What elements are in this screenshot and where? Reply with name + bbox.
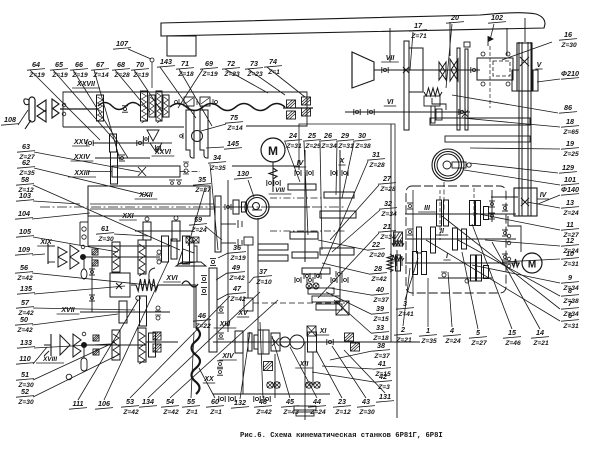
label 32 bbox=[379, 199, 397, 218]
shaft XVIII roman bbox=[36, 356, 64, 363]
shaft X roman bbox=[338, 158, 345, 165]
shaft XXIII roman bbox=[68, 170, 96, 177]
label 74 bbox=[264, 57, 282, 76]
label 48 bbox=[254, 397, 272, 416]
svg-text:23: 23 bbox=[337, 397, 346, 406]
label 36 bbox=[228, 243, 246, 262]
svg-text:70: 70 bbox=[136, 60, 144, 69]
bearing IV top bbox=[294, 170, 296, 176]
leader 75 bbox=[201, 124, 226, 131]
XVIII bevel pair bbox=[60, 335, 70, 355]
leader 70 bbox=[134, 70, 162, 112]
svg-text:20: 20 bbox=[450, 13, 459, 22]
label 29 bbox=[336, 131, 354, 150]
label 11 bbox=[561, 220, 579, 239]
fork bearing left bbox=[182, 133, 184, 139]
XIX bracket bbox=[47, 244, 49, 264]
svg-text:33: 33 bbox=[376, 323, 384, 332]
svg-text:56: 56 bbox=[20, 263, 29, 272]
gear on XXV bbox=[110, 134, 117, 152]
counter bearing bbox=[442, 273, 446, 277]
tumbler base bbox=[176, 262, 206, 266]
label 37 bbox=[254, 267, 272, 286]
svg-text:Z=42: Z=42 bbox=[162, 409, 179, 416]
label 66 bbox=[70, 60, 88, 79]
gear cluster right of XIX bbox=[162, 236, 169, 262]
leader 59 bbox=[205, 226, 222, 240]
svg-text:VI: VI bbox=[387, 99, 395, 106]
label 15 bbox=[503, 328, 521, 347]
leader 135 bbox=[34, 286, 125, 294]
svg-text:66: 66 bbox=[75, 60, 84, 69]
leader 65 bbox=[53, 70, 117, 143]
svg-text:52: 52 bbox=[21, 387, 29, 396]
lead screw axis bbox=[40, 206, 345, 208]
shaft XVII line bbox=[80, 311, 170, 313]
bearing VII a bbox=[381, 67, 383, 73]
pulley 210 flanges bbox=[512, 70, 517, 91]
svg-text:28: 28 bbox=[373, 264, 382, 273]
svg-text:30: 30 bbox=[358, 131, 366, 140]
svg-text:VII: VII bbox=[386, 55, 396, 62]
svg-text:18: 18 bbox=[566, 117, 574, 126]
small circle 111 target bbox=[136, 296, 140, 300]
leader 56 bbox=[32, 273, 148, 285]
cone pulley bbox=[352, 52, 374, 88]
leader 73 bbox=[248, 69, 285, 95]
leader 58 bbox=[33, 185, 180, 250]
clutch dial bbox=[245, 195, 269, 219]
label 41 bbox=[373, 359, 391, 378]
label 68 bbox=[112, 60, 130, 79]
leader 26 bbox=[320, 142, 322, 250]
svg-text:XV: XV bbox=[237, 310, 249, 317]
bevel under cluster bbox=[147, 130, 159, 141]
label 9 bbox=[561, 273, 579, 292]
svg-text:10: 10 bbox=[566, 249, 574, 258]
block 102 bbox=[464, 42, 470, 47]
label F140 bbox=[561, 185, 579, 195]
svg-text:Z=31: Z=31 bbox=[562, 261, 579, 268]
svg-text:145: 145 bbox=[227, 139, 240, 148]
stack bearing b bbox=[157, 260, 161, 264]
label 71 bbox=[176, 59, 194, 78]
shaft XXVII bbox=[60, 108, 98, 110]
spring XVI bbox=[131, 284, 136, 286]
gear 41b bbox=[316, 304, 342, 310]
svg-text:35: 35 bbox=[198, 175, 207, 184]
fork 75 block b bbox=[200, 97, 210, 106]
leader 110 bbox=[33, 347, 47, 364]
vertical link XIX bbox=[91, 257, 93, 312]
flexible shaft top link bbox=[182, 281, 198, 287]
fork 75 block a bbox=[184, 97, 194, 106]
svg-text:XIII: XIII bbox=[219, 321, 232, 328]
label 2 bbox=[394, 325, 412, 344]
shaft VIII line bbox=[228, 206, 247, 208]
svg-text:45: 45 bbox=[285, 397, 295, 406]
svg-text:11: 11 bbox=[566, 220, 573, 229]
leader 23 bbox=[316, 350, 342, 398]
leader 45 bbox=[272, 336, 290, 398]
leader 72 bbox=[225, 69, 268, 93]
leader 133 bbox=[34, 344, 110, 348]
wavy segment shaft XXVII b bbox=[170, 104, 285, 111]
svg-text:Z=20: Z=20 bbox=[368, 252, 385, 259]
label 60 bbox=[206, 397, 224, 416]
svg-text:XVI: XVI bbox=[165, 275, 178, 282]
leader 8 bbox=[458, 240, 560, 296]
leader 104 bbox=[32, 213, 90, 219]
leader 132 bbox=[240, 332, 250, 399]
leader 33 bbox=[334, 300, 371, 333]
svg-text:XIV: XIV bbox=[221, 353, 235, 360]
bearing II l bbox=[407, 228, 413, 230]
svg-text:Z=42: Z=42 bbox=[370, 276, 387, 283]
apron outline bbox=[87, 216, 89, 246]
svg-text:1: 1 bbox=[426, 326, 430, 335]
svg-text:111: 111 bbox=[73, 399, 84, 408]
leader 54 bbox=[170, 300, 278, 398]
svg-text:42: 42 bbox=[378, 372, 387, 381]
XVIII capsule bbox=[81, 358, 87, 371]
leader 68 bbox=[115, 70, 150, 112]
label 62 bbox=[17, 158, 35, 177]
leader 42 bbox=[312, 372, 374, 382]
label 135 bbox=[17, 284, 35, 294]
bearing XXIV bbox=[119, 154, 125, 156]
coupling left I bbox=[396, 255, 401, 271]
svg-text:37: 37 bbox=[259, 267, 268, 276]
label 50 bbox=[15, 315, 33, 334]
shaft IV roman right bbox=[537, 192, 549, 199]
svg-text:Z=21: Z=21 bbox=[532, 340, 549, 347]
bearing XXV right bbox=[136, 140, 138, 146]
shaft XXIV bbox=[95, 157, 150, 159]
svg-text:22: 22 bbox=[371, 240, 380, 249]
svg-text:Z=1: Z=1 bbox=[209, 409, 222, 416]
leader 6 bbox=[426, 240, 560, 321]
label 75 bbox=[225, 113, 243, 132]
plate 34 tall bbox=[215, 196, 221, 252]
svg-text:Рис.6. Схема кинематическая с: Рис.6. Схема кинематическая станков 6Р81… bbox=[240, 432, 443, 440]
bottom shaft line bbox=[213, 393, 330, 395]
bearing circled a bbox=[306, 382, 312, 388]
svg-text:Z=27: Z=27 bbox=[470, 340, 487, 347]
bearing on shaft XXVII a bbox=[122, 105, 128, 107]
gear on XVIII bbox=[149, 333, 156, 357]
svg-text:12: 12 bbox=[566, 236, 574, 245]
spring rod upper a bbox=[112, 242, 120, 272]
leader 21 bbox=[318, 233, 379, 298]
bearing X bottom bbox=[330, 277, 332, 283]
svg-text:44: 44 bbox=[312, 397, 321, 406]
shaft XVI line bbox=[158, 284, 196, 286]
stub lower bbox=[221, 242, 236, 244]
svg-text:2: 2 bbox=[400, 325, 405, 334]
leader 18 bbox=[462, 118, 560, 127]
shaft VI line bbox=[345, 111, 470, 113]
label 18 bbox=[561, 117, 579, 136]
label 10 bbox=[561, 249, 579, 268]
shaft VIII roman bbox=[269, 187, 292, 194]
svg-text:Z=24: Z=24 bbox=[309, 409, 326, 416]
leader 41 bbox=[322, 366, 373, 369]
svg-text:Z=3: Z=3 bbox=[377, 384, 390, 391]
label 3 bbox=[396, 299, 414, 318]
M1 spring bbox=[269, 168, 277, 179]
gear 39 bbox=[312, 296, 340, 302]
x mark pulley top bbox=[520, 57, 529, 66]
label 61 bbox=[96, 224, 114, 243]
dashed shaft line bbox=[253, 302, 345, 304]
svg-text:109: 109 bbox=[18, 245, 30, 254]
rod 37 bbox=[247, 245, 249, 298]
svg-text:73: 73 bbox=[250, 59, 258, 68]
label 14 bbox=[531, 328, 549, 347]
svg-text:72: 72 bbox=[227, 59, 235, 68]
leader 50 bbox=[32, 314, 118, 325]
svg-text:Z=24: Z=24 bbox=[562, 210, 579, 217]
bearing cross b bbox=[313, 283, 319, 289]
bearing cluster b bbox=[314, 273, 316, 279]
label 51 bbox=[16, 370, 34, 389]
label 35 bbox=[193, 175, 211, 194]
gear XI right bbox=[308, 332, 317, 352]
svg-text:61: 61 bbox=[101, 224, 109, 233]
bearing circled b bbox=[314, 382, 320, 388]
tumbler fork bbox=[178, 246, 197, 264]
label 34 bbox=[208, 153, 226, 172]
fork 75 left bbox=[186, 110, 194, 158]
spring rod lower a bbox=[112, 330, 120, 360]
leader 31 bbox=[318, 161, 368, 278]
svg-text:50: 50 bbox=[20, 315, 28, 324]
label 143 bbox=[157, 57, 175, 67]
svg-text:Z=37: Z=37 bbox=[194, 187, 211, 194]
leader 111 bbox=[78, 300, 138, 400]
bearing VI a bbox=[353, 109, 355, 115]
svg-text:Z=21: Z=21 bbox=[395, 337, 412, 344]
column line bbox=[396, 250, 398, 418]
label 104 bbox=[15, 209, 33, 219]
leader 67 bbox=[94, 70, 120, 160]
gear 75 circle bbox=[192, 131, 203, 142]
label 47 bbox=[228, 284, 246, 303]
leader 131 bbox=[344, 350, 385, 393]
label 70 bbox=[131, 60, 149, 79]
svg-text:143: 143 bbox=[160, 57, 172, 66]
svg-text:Z=28: Z=28 bbox=[379, 186, 396, 193]
dash VIII bbox=[270, 197, 345, 199]
svg-text:34: 34 bbox=[213, 153, 221, 162]
leader 61 bbox=[114, 234, 148, 236]
leader 51 bbox=[33, 342, 115, 380]
label 21 bbox=[378, 222, 396, 241]
svg-text:31: 31 bbox=[372, 150, 380, 159]
gear II b bbox=[431, 227, 436, 253]
leader circle 110 bbox=[66, 374, 72, 380]
shaft XIX roman bbox=[37, 239, 55, 246]
svg-text:135: 135 bbox=[20, 284, 33, 293]
gear 19 bar bbox=[445, 136, 530, 142]
block 16 bbox=[477, 58, 513, 80]
svg-text:Z=1: Z=1 bbox=[185, 409, 198, 416]
XIX handle bbox=[81, 269, 87, 279]
leader 10 bbox=[502, 259, 560, 262]
svg-text:25: 25 bbox=[307, 131, 317, 140]
svg-text:16: 16 bbox=[564, 30, 573, 39]
staircase link bbox=[432, 98, 446, 110]
svg-text:86: 86 bbox=[564, 103, 573, 112]
shaft XXV roman bbox=[72, 139, 90, 146]
shaft I line bbox=[405, 262, 520, 264]
leader 66 bbox=[73, 70, 128, 158]
long vertical screw bbox=[390, 124, 392, 342]
leader 5 bbox=[462, 252, 478, 329]
svg-text:8: 8 bbox=[568, 286, 572, 295]
label 28 bbox=[369, 264, 387, 283]
spring rod upper b bbox=[138, 240, 146, 274]
leader 63 bbox=[34, 152, 140, 172]
svg-text:108: 108 bbox=[4, 115, 16, 124]
shaft XX roman bbox=[203, 376, 215, 383]
label 56 bbox=[15, 263, 33, 282]
tumbler rod bbox=[193, 240, 195, 266]
ujoint circle a bbox=[280, 337, 290, 347]
gear VI a bbox=[431, 106, 435, 123]
svg-text:74: 74 bbox=[269, 57, 277, 66]
box inner dash a bbox=[439, 190, 441, 240]
x mark VI bbox=[462, 110, 468, 117]
leader 145 bbox=[206, 147, 224, 148]
leader 106 bbox=[104, 262, 168, 400]
svg-text:Z=30: Z=30 bbox=[358, 409, 375, 416]
shaft I roman bbox=[443, 253, 450, 260]
svg-text:15: 15 bbox=[508, 328, 517, 337]
idler shaft bbox=[491, 190, 493, 222]
svg-text:4: 4 bbox=[449, 326, 454, 335]
leader 24 bbox=[285, 142, 300, 182]
table bracket bbox=[167, 36, 196, 56]
svg-text:38: 38 bbox=[377, 341, 385, 350]
leader 103 bbox=[33, 201, 80, 204]
svg-text:51: 51 bbox=[21, 370, 29, 379]
svg-text:107: 107 bbox=[116, 39, 129, 48]
svg-text:Z=34: Z=34 bbox=[380, 211, 397, 218]
XIX junction dot bbox=[81, 255, 86, 260]
label 30 bbox=[353, 131, 371, 150]
svg-text:Z=42: Z=42 bbox=[229, 296, 246, 303]
x mark pulley bottom bbox=[521, 198, 529, 206]
leader 74 bbox=[267, 67, 305, 97]
svg-text:Z=19: Z=19 bbox=[71, 72, 88, 79]
svg-text:71: 71 bbox=[181, 59, 189, 68]
svg-text:58: 58 bbox=[21, 175, 29, 184]
M1 shaft bbox=[272, 162, 274, 192]
svg-text:Z=28: Z=28 bbox=[368, 162, 385, 169]
shaft XIV roman bbox=[219, 353, 237, 360]
svg-text:Z=42: Z=42 bbox=[228, 275, 245, 282]
label 46 bbox=[193, 311, 211, 330]
leader 22 bbox=[318, 240, 367, 250]
motor M2 coupling bbox=[512, 259, 519, 267]
flex vertical bbox=[195, 286, 197, 328]
svg-text:133: 133 bbox=[20, 338, 32, 347]
label 102 bbox=[488, 13, 506, 23]
label 52 bbox=[16, 387, 34, 406]
shaft XIII roman bbox=[214, 321, 237, 328]
svg-text:32: 32 bbox=[384, 199, 392, 208]
leader 14 bbox=[492, 242, 540, 329]
bearing screw right bbox=[224, 204, 226, 210]
label 17 bbox=[409, 21, 427, 40]
svg-text:49: 49 bbox=[231, 263, 240, 272]
svg-text:17: 17 bbox=[414, 21, 423, 30]
gear 65 bbox=[141, 91, 148, 121]
leader 2 bbox=[403, 268, 410, 326]
coupling lower bbox=[153, 332, 161, 340]
label 27 bbox=[378, 174, 396, 193]
svg-text:54: 54 bbox=[166, 397, 174, 406]
svg-text:129: 129 bbox=[562, 163, 574, 172]
block 16 stubs bbox=[470, 69, 477, 71]
worm block bbox=[387, 254, 393, 272]
gear bar X 3 bbox=[320, 248, 354, 255]
svg-text:46: 46 bbox=[197, 311, 207, 320]
handwheel 101 bbox=[432, 149, 464, 181]
bearing 49 top bbox=[210, 258, 216, 260]
handle bracket left end bbox=[29, 97, 35, 122]
leader 52 bbox=[33, 354, 120, 397]
svg-text:64: 64 bbox=[32, 60, 40, 69]
label 103 bbox=[16, 191, 34, 201]
svg-text:Z=42: Z=42 bbox=[255, 409, 272, 416]
label 38 bbox=[372, 341, 390, 360]
svg-text:Z=41: Z=41 bbox=[397, 311, 414, 318]
gear 40 bbox=[308, 288, 334, 294]
leader 108 bbox=[18, 110, 28, 125]
svg-text:XXI: XXI bbox=[121, 213, 134, 220]
gear 66 pair bbox=[156, 91, 162, 121]
leader 69 bbox=[178, 69, 203, 108]
svg-text:65: 65 bbox=[55, 60, 64, 69]
shaft XII roman bbox=[295, 361, 313, 368]
leader F210 bbox=[537, 79, 560, 82]
leader 19 bbox=[470, 148, 560, 149]
friction X box bbox=[110, 273, 130, 297]
screw housing bbox=[88, 186, 210, 216]
xsmall b bbox=[193, 237, 199, 243]
svg-text:Z=18: Z=18 bbox=[177, 71, 194, 78]
svg-text:Z=35: Z=35 bbox=[209, 165, 226, 172]
screw bar XXIII bbox=[112, 166, 180, 177]
svg-text:Z=42: Z=42 bbox=[122, 409, 139, 416]
leader 143 bbox=[160, 67, 196, 118]
wavy segment shaft XXVII a bbox=[98, 103, 140, 110]
M1 bearings bbox=[266, 180, 268, 186]
svg-text:XXIII: XXIII bbox=[73, 170, 90, 177]
leader 3 bbox=[405, 258, 418, 300]
leader 34 bbox=[210, 164, 218, 250]
leader 102 bbox=[490, 24, 494, 40]
block XI bbox=[258, 330, 269, 354]
svg-text:XXVII: XXVII bbox=[76, 81, 96, 88]
svg-text:Z=12: Z=12 bbox=[334, 409, 351, 416]
leader F140 bbox=[538, 195, 560, 204]
leader 107 bbox=[128, 49, 151, 59]
stub upper bbox=[221, 223, 236, 225]
